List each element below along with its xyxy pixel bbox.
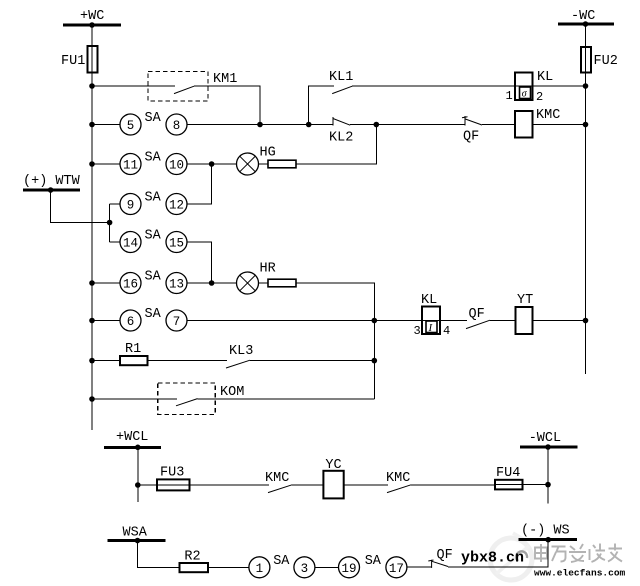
fuse FU4 — [495, 466, 523, 489]
contact KMC b — [386, 471, 411, 493]
watermark logo circle — [490, 533, 532, 580]
wire FU4 to -WCL rail — [523, 484, 549, 486]
wire row7 left — [92, 320, 120, 322]
junction right rail row2 — [583, 122, 589, 128]
node (-) WS bus — [519, 524, 577, 540]
svg-text:SA: SA — [145, 270, 162, 285]
wire QF to KMC coil — [482, 124, 515, 126]
svg-text:12: 12 — [169, 199, 184, 213]
junction row2 at x308 — [306, 122, 312, 128]
node SA terminal 8 — [166, 114, 187, 135]
svg-text:FU3: FU3 — [160, 466, 184, 481]
svg-text:QF: QF — [437, 548, 453, 563]
junction rail row2 — [89, 122, 95, 128]
wire row3 left — [92, 163, 120, 165]
node -WC bus — [558, 9, 614, 24]
svg-text:KOM: KOM — [220, 385, 244, 400]
node SA terminal 3 — [294, 557, 315, 578]
solenoid YC — [323, 458, 343, 498]
wire terminal 17 to QF — [407, 566, 432, 568]
fuse FU1 — [61, 46, 98, 73]
junction FU1 output — [89, 83, 95, 89]
contact KM1 (in dashed box) — [148, 72, 237, 102]
node SA terminal 6 — [120, 310, 141, 331]
junction +WCL — [135, 445, 141, 451]
junction at +WC bus — [89, 22, 95, 28]
contact KOM (in dashed box) — [158, 383, 245, 415]
wire row6 right to drop rail — [296, 283, 374, 399]
node SA terminal 11 — [120, 154, 141, 175]
contact KL2 — [329, 117, 353, 146]
svg-text:WSA: WSA — [123, 526, 148, 541]
relay KL (coil 1-2) — [506, 70, 554, 104]
wire row2 mid — [187, 124, 333, 126]
junction -WC bus — [583, 21, 589, 27]
svg-text:16: 16 — [123, 278, 138, 292]
junction row3 — [209, 161, 215, 167]
wire row3 right with riser to row2 — [296, 125, 376, 165]
wire QF to YT — [490, 320, 516, 322]
contact QF row7 — [466, 307, 490, 329]
junction FU3 branch — [135, 482, 141, 488]
fuse FU3 — [157, 466, 190, 491]
junction row2 at x376 — [374, 122, 380, 128]
svg-text:11: 11 — [123, 159, 138, 173]
svg-text:6: 6 — [127, 315, 135, 329]
wire row8 left — [92, 360, 120, 362]
svg-text:+WC: +WC — [80, 9, 104, 24]
junction WSA — [135, 538, 141, 544]
node (+) WTW — [23, 174, 81, 190]
svg-text:2: 2 — [536, 90, 543, 104]
wire YC to KMC contact b — [344, 484, 388, 486]
resistor HR series — [268, 279, 296, 287]
wire row1 to KM1 — [92, 85, 175, 87]
svg-text:QF: QF — [469, 307, 485, 322]
svg-text:-WC: -WC — [571, 9, 595, 24]
node SA terminal 14 — [120, 232, 141, 253]
junction WTW branch — [107, 220, 113, 226]
contact KL1 — [329, 70, 353, 94]
contact QF row2 — [462, 116, 482, 145]
wire to FU3 — [138, 484, 157, 486]
junction rail row6 — [89, 280, 95, 286]
lamp HR — [237, 262, 276, 295]
node SA terminal 10 — [166, 154, 187, 175]
junction rail row3 — [89, 161, 95, 167]
svg-text:1: 1 — [506, 89, 513, 103]
junction KM1 drop — [257, 122, 263, 128]
svg-text:-WCL: -WCL — [529, 431, 561, 446]
svg-text:HR: HR — [260, 262, 276, 277]
node +WCL bus — [104, 430, 161, 447]
svg-text:SA: SA — [145, 307, 162, 322]
solenoid YT — [516, 293, 534, 334]
wire KL coil2 to QF — [440, 320, 467, 322]
wire row6 left — [92, 282, 120, 284]
junction rail row7 — [89, 318, 95, 324]
svg-text:R1: R1 — [125, 342, 141, 357]
svg-text:3: 3 — [301, 562, 309, 576]
wire row5 dropper to row6 — [187, 242, 212, 283]
node SA terminal 7 — [166, 310, 187, 331]
svg-text:KMC: KMC — [265, 471, 289, 486]
node -WCL bus — [520, 431, 578, 447]
junction rail row8 — [89, 358, 95, 364]
svg-text:(+) WTW: (+) WTW — [23, 174, 81, 189]
wire KM1 to corner down — [194, 86, 260, 125]
contact KMC a — [265, 471, 292, 493]
lamp HG — [237, 146, 276, 176]
svg-text:KM1: KM1 — [213, 72, 237, 87]
contact KL3 — [226, 344, 253, 368]
svg-text:SA: SA — [145, 191, 162, 206]
watermark text elecfans brand — [535, 544, 622, 563]
junction row7 at drop rail — [372, 318, 378, 324]
wire lamp to resistor — [259, 163, 269, 165]
wire WCL left stub — [137, 447, 139, 502]
svg-text:SA: SA — [145, 151, 162, 166]
svg-text:7: 7 — [173, 315, 181, 329]
svg-text:10: 10 — [169, 159, 184, 173]
wire -WCL stub — [547, 447, 549, 504]
junction right rail row7 — [583, 318, 589, 324]
node +WC bus — [63, 9, 121, 25]
svg-text:KL1: KL1 — [329, 70, 353, 85]
junction -WCL — [545, 444, 551, 450]
wire row7 to KL coil2 — [187, 320, 422, 322]
junction WS — [545, 537, 551, 543]
junction WTW — [48, 187, 54, 193]
wire KL coil to right rail — [533, 85, 586, 87]
wire bracket 9-14 — [109, 204, 111, 242]
svg-text:(-) WS: (-) WS — [521, 524, 570, 539]
wire row5 left — [110, 241, 120, 243]
svg-text:SA: SA — [273, 554, 290, 569]
node SA terminal 12 — [166, 194, 187, 215]
resistor R2 — [180, 550, 209, 573]
svg-text:YC: YC — [325, 458, 341, 473]
node SA terminal 13 — [166, 273, 187, 294]
wire FU3 to KMC contact — [190, 484, 270, 486]
svg-text:FU2: FU2 — [594, 54, 618, 69]
wire row9 left — [92, 398, 177, 400]
wire row3 to lamp — [187, 163, 237, 165]
wire WSA drop — [138, 541, 180, 568]
svg-text:KL: KL — [537, 70, 553, 85]
wire KL3 to drop rail — [250, 360, 374, 362]
wire KMC coil to right rail — [533, 124, 586, 126]
resistor HG series — [268, 160, 296, 168]
wire WTW drop — [51, 190, 110, 223]
wire YT to right rail — [533, 320, 586, 322]
svg-text:SA: SA — [145, 111, 162, 126]
node SA terminal 19 — [339, 557, 360, 578]
svg-text:8: 8 — [173, 119, 181, 133]
svg-text:KL3: KL3 — [229, 344, 253, 359]
wire KOM to drop rail — [198, 398, 375, 400]
svg-text:+WCL: +WCL — [116, 430, 148, 445]
svg-text:HG: HG — [260, 146, 276, 161]
wire QF to WS rail — [448, 540, 548, 567]
svg-text:KMC: KMC — [536, 108, 560, 123]
svg-text:KL2: KL2 — [329, 131, 353, 146]
wire row4 riser to row3 — [187, 164, 212, 204]
svg-text:3: 3 — [414, 324, 421, 338]
wire KMC a to YC — [292, 484, 323, 486]
wire row2 left segment — [92, 124, 120, 126]
wire row6 to lamp — [187, 282, 237, 284]
junction FU4 to rail — [545, 482, 551, 488]
svg-text:YT: YT — [517, 293, 533, 308]
svg-text:4: 4 — [443, 324, 450, 338]
node SA terminal 15 — [166, 232, 187, 253]
wire R2 to terminal 1 — [208, 566, 249, 568]
svg-text:ybx8.cn: ybx8.cn — [461, 550, 524, 567]
wire KMC b to FU4 — [411, 484, 495, 486]
contactor coil KMC — [515, 108, 560, 138]
wire left rail — [91, 25, 93, 430]
wire row4 left — [110, 203, 120, 205]
node WSA bus — [108, 526, 166, 541]
svg-text:14: 14 — [123, 237, 138, 251]
wire row2 after KL2 — [350, 124, 465, 126]
node SA terminal 17 — [386, 557, 407, 578]
svg-text:1: 1 — [256, 562, 264, 576]
relay KL (coil 3-4) — [414, 293, 451, 338]
svg-text:9: 9 — [127, 199, 135, 213]
resistor R1 — [120, 342, 148, 365]
node SA terminal 1 — [249, 557, 270, 578]
junction right rail row1 — [583, 83, 589, 89]
junction row6 — [209, 280, 215, 286]
wire right rail — [585, 24, 587, 374]
wire R1 to KL3 — [148, 360, 228, 362]
svg-text:13: 13 — [169, 278, 184, 292]
svg-text:KL: KL — [421, 293, 437, 308]
node SA terminal 5 — [120, 114, 141, 135]
svg-text:FU4: FU4 — [496, 466, 520, 481]
node SA terminal 9 — [120, 194, 141, 215]
junction row8 at drop rail — [372, 358, 378, 364]
contact QF bottom — [428, 548, 452, 568]
svg-text:17: 17 — [389, 562, 404, 576]
svg-text:FU1: FU1 — [61, 54, 85, 69]
svg-text:QF: QF — [463, 130, 479, 145]
node SA terminal 16 — [120, 273, 141, 294]
wire KL1 to KL coil — [352, 85, 515, 87]
svg-text:R2: R2 — [184, 550, 200, 565]
wire riser to KL1 row — [309, 86, 334, 125]
svg-text:15: 15 — [169, 237, 184, 251]
wire terminal 3 to 19 — [315, 566, 339, 568]
fuse FU2 — [581, 47, 618, 73]
svg-text:SA: SA — [365, 554, 382, 569]
svg-text:www.elecfans.com: www.elecfans.com — [534, 568, 626, 579]
svg-text:SA: SA — [145, 229, 162, 244]
svg-text:19: 19 — [341, 562, 356, 576]
junction rail row9 — [89, 396, 95, 402]
wire lamp to resistor — [259, 282, 269, 284]
svg-text:KMC: KMC — [386, 471, 410, 486]
svg-text:5: 5 — [127, 119, 135, 133]
